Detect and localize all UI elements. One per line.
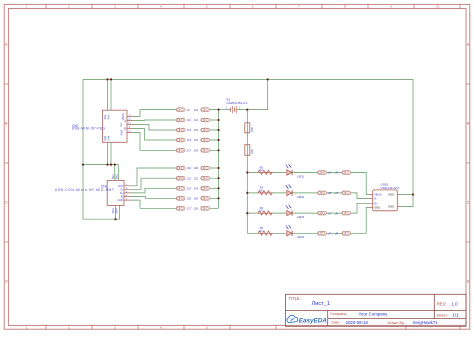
wire CN1 fan p2 [132, 178, 177, 189]
connector USB1 USB-211-ANY [369, 190, 401, 211]
frame ticks top [46, 4, 460, 8]
junction J bus row J11 [218, 119, 220, 121]
battery B1 CR2032 [230, 106, 236, 113]
svg-text:Sheet:: Sheet: [437, 313, 448, 318]
svg-text:J16: J16 [194, 138, 199, 142]
junction LED bus row 1 [246, 171, 248, 173]
svg-text:GND: GND [388, 193, 394, 197]
svg-text:USB-CON-Micro-5P-MID-MNT: USB-CON-Micro-5P-MID-MNT [55, 188, 114, 192]
svg-text:J9: J9 [187, 108, 190, 112]
wire left rail [82, 79, 84, 219]
svg-text:EasyEDA: EasyEDA [299, 317, 327, 324]
svg-text:J11: J11 [187, 118, 192, 122]
wire J bus [218, 110, 220, 209]
jumper J23 [176, 186, 185, 190]
jumper J25 [176, 196, 185, 200]
title block outline [285, 294, 466, 326]
svg-text:SH1: SH1 [111, 174, 115, 180]
junction CN1 bottom wire [114, 218, 116, 220]
svg-text:D-: D- [374, 197, 377, 201]
junction top rail / CN2 pin a [106, 78, 108, 80]
svg-text:D-: D- [121, 187, 124, 191]
jumper J16 [201, 138, 210, 142]
LED3 [285, 205, 292, 216]
junction mid wire / CN2 bottom pin b [110, 164, 112, 166]
jumper J12 [201, 118, 210, 122]
jumper labels mid column [187, 108, 199, 211]
jumper J6 [342, 211, 351, 215]
jumper J13 [176, 128, 185, 132]
svg-text:Company:: Company: [330, 312, 347, 316]
wires LED row 2 [247, 193, 368, 199]
svg-text:J6: J6 [335, 211, 338, 215]
svg-text:J26: J26 [194, 197, 199, 201]
wire CN2 fan p2 [133, 119, 177, 121]
wires LED row 4 [247, 208, 368, 234]
svg-text:SH3: SH3 [111, 208, 115, 214]
svg-text:J15: J15 [187, 138, 192, 142]
junction left rail / mid wire [82, 164, 84, 166]
svg-text:GND: GND [118, 198, 124, 202]
resistor labels [260, 165, 264, 230]
jumper labels LED rows [328, 171, 338, 236]
EasyEDA logo [287, 315, 327, 324]
svg-text:SH2: SH2 [106, 114, 110, 120]
wire CN1 bottom [83, 206, 120, 220]
junction J bus row J21 [218, 177, 220, 179]
wires J rows to bus (top group) [210, 110, 219, 151]
wire CN1 fan p5 [132, 200, 177, 208]
svg-text:GND: GND [374, 206, 380, 210]
svg-text:GND: GND [120, 130, 124, 136]
jumper J5 [318, 211, 327, 215]
svg-text:LED4: LED4 [297, 235, 305, 239]
junction J bus row J23 [218, 187, 220, 189]
svg-text:Date:: Date: [332, 321, 341, 325]
wire right rail [412, 79, 414, 194]
jumper J28 [201, 206, 210, 210]
svg-text:J12: J12 [194, 118, 199, 122]
svg-text:J13: J13 [187, 128, 192, 132]
svg-text:LED3: LED3 [297, 215, 305, 219]
wire USB1 right gnd [401, 195, 414, 207]
jumper J2 [342, 171, 351, 175]
svg-text:J20: J20 [194, 166, 199, 170]
fuse F1 [245, 122, 250, 134]
svg-text:Drawn By:: Drawn By: [388, 321, 406, 325]
wire fuse branch [246, 110, 248, 234]
frame ticks right [466, 84, 470, 242]
junction LED bus row 2 [246, 192, 248, 194]
svg-text:22R: 22R [250, 149, 254, 154]
jumper J10 [201, 108, 210, 112]
svg-text:SH2: SH2 [115, 174, 119, 180]
jumper J15 [176, 138, 185, 142]
wire CN2 top pin a [107, 79, 109, 110]
svg-text:CR2032 BS-2-1: CR2032 BS-2-1 [227, 101, 249, 105]
wires J rows to bus (bottom group) [210, 168, 219, 208]
frame row letters [5, 43, 470, 284]
label CN2 [72, 124, 106, 131]
svg-text:10: 10 [436, 5, 440, 9]
svg-text:1/1: 1/1 [452, 313, 459, 318]
label USB1 [381, 183, 400, 190]
svg-text:J17: J17 [187, 149, 192, 153]
wire CN1 fan p1 [132, 168, 177, 186]
jumper J26 [201, 196, 210, 200]
jumper J21 [176, 176, 185, 180]
wire CN1 bottom pin stub [115, 206, 117, 220]
junction top rail / CN2 pin b [110, 78, 112, 80]
svg-text:J24: J24 [194, 187, 199, 191]
resistor R1 [258, 170, 272, 174]
jumper J7 [318, 231, 327, 235]
junction top rail / battery branch [267, 78, 269, 80]
wires LED row 3 [247, 203, 368, 213]
wire CN2 bottom pin b [110, 142, 112, 164]
wire CN2 fan p4 [133, 129, 177, 141]
svg-text:D: D [5, 280, 8, 284]
svg-text:J19: J19 [187, 166, 192, 170]
wire CN2 fan p5 [133, 132, 177, 150]
resistor R2 [258, 191, 272, 195]
svg-text:2020-09-16: 2020-09-16 [346, 320, 369, 325]
svg-text:J1: J1 [328, 171, 331, 175]
svg-text:J4: J4 [335, 191, 338, 195]
jumper J3 [318, 191, 327, 195]
jumper J20 [201, 166, 210, 170]
wires LED row 1 [247, 173, 368, 195]
svg-text:REV:: REV: [437, 302, 447, 307]
junction J bus row J25 [218, 197, 220, 199]
frame ticks left [4, 84, 8, 242]
junction battery right / fuse branch [246, 109, 248, 111]
svg-text:VBUS: VBUS [121, 113, 125, 120]
connector CN1 USB-CON-Micro-5P-MID-MNT [107, 180, 131, 205]
svg-text:D+: D+ [120, 191, 124, 195]
jumper J11 [176, 118, 185, 122]
junction J bus row J15 [218, 139, 220, 141]
svg-text:Your Company: Your Company [359, 311, 389, 316]
jumper J4 [342, 191, 351, 195]
svg-text:Лист_1: Лист_1 [312, 301, 330, 307]
svg-text:J25: J25 [187, 197, 192, 201]
svg-text:C: C [467, 201, 470, 205]
wire CN2 top pin b [110, 79, 112, 110]
junction mid wire / CN2 bottom pin a [106, 164, 108, 166]
wire CN2 fan p3 [133, 124, 177, 130]
svg-text:ID: ID [121, 195, 124, 199]
jumper J17 [176, 148, 185, 152]
wire CN2 fan p1 [133, 110, 177, 117]
fuse F2 [245, 144, 250, 156]
wire mid horizontal [83, 165, 118, 181]
svg-text:22R: 22R [250, 127, 254, 132]
junction mid wire / CN1 top pin [114, 164, 116, 166]
frame ticks bottom [46, 325, 460, 329]
svg-text:J21: J21 [187, 176, 192, 180]
svg-text:D+: D+ [119, 123, 123, 127]
svg-text:TITLE:: TITLE: [289, 296, 301, 301]
junction USB1 GND / right rail [412, 193, 414, 195]
svg-text:J5: J5 [328, 211, 331, 215]
svg-text:J27: J27 [187, 207, 192, 211]
jumper J19 [176, 166, 185, 170]
svg-text:SH4: SH4 [115, 208, 119, 214]
svg-text:LED1: LED1 [297, 174, 305, 178]
jumper J24 [201, 186, 210, 190]
junction J bus row J19 [218, 167, 220, 169]
LED1 [285, 164, 292, 175]
jumper J18 [201, 148, 210, 152]
svg-text:J10: J10 [194, 108, 199, 112]
junction battery left / J bus [218, 109, 220, 111]
LED4 [285, 225, 292, 236]
jumper J8 [342, 231, 351, 235]
svg-text:J3: J3 [328, 191, 331, 195]
svg-text:D-: D- [123, 119, 127, 122]
svg-text:J22: J22 [194, 176, 199, 180]
resistor R3 [258, 211, 272, 215]
svg-text:SH4: SH4 [106, 135, 110, 141]
svg-text:VCC: VCC [118, 184, 124, 188]
wire battery right [237, 79, 268, 109]
svg-text:LED2: LED2 [297, 195, 305, 199]
svg-text:J2: J2 [335, 171, 338, 175]
svg-text:J18: J18 [194, 149, 199, 153]
jumper J9 [176, 108, 185, 112]
jumper J27 [176, 206, 185, 210]
svg-text:J14: J14 [194, 128, 199, 132]
jumper J14 [201, 128, 210, 132]
svg-text:J28: J28 [194, 207, 199, 211]
svg-text:J23: J23 [187, 187, 192, 191]
LED2 [285, 184, 292, 195]
resistor R4 [258, 231, 272, 235]
svg-text:SergHawk71: SergHawk71 [413, 320, 439, 325]
svg-text:1.0: 1.0 [451, 302, 458, 307]
junction J bus row J17 [218, 149, 220, 151]
svg-text:D: D [467, 280, 470, 284]
svg-text:J7: J7 [328, 232, 331, 236]
wire CN2 bottom pin a [107, 142, 109, 164]
label CN1 [55, 184, 114, 192]
jumper J1 [318, 171, 327, 175]
wire CN1 fan p4 [132, 197, 177, 199]
svg-text:USB-MINI-5P-PEG: USB-MINI-5P-PEG [72, 127, 106, 131]
junction LED bus row 3 [246, 212, 248, 214]
svg-text:GND: GND [388, 205, 394, 209]
svg-text:USB-211-ANY: USB-211-ANY [381, 186, 400, 190]
wire battery left [219, 109, 230, 111]
junction J bus row J13 [218, 129, 220, 131]
wire CN1 top pin stub [114, 165, 116, 181]
svg-text:J8: J8 [335, 232, 338, 236]
svg-text:ID: ID [123, 127, 127, 130]
wire top rail [83, 78, 413, 80]
jumper J22 [201, 176, 210, 180]
wire CN1 fan p3 [132, 188, 177, 193]
svg-text:C: C [5, 201, 8, 205]
connector CN2 USB-MINI-5P-PEG [102, 110, 132, 142]
